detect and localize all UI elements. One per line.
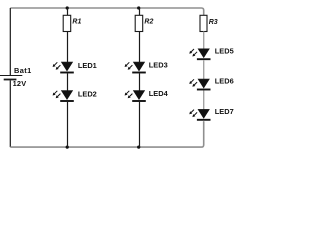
resistor R1 bbox=[63, 15, 70, 31]
resistor R2 bbox=[135, 15, 143, 31]
LED LED7 bbox=[189, 109, 210, 119]
svg-text:LED7: LED7 bbox=[215, 107, 234, 116]
wire branch3 R3 to LED5 bbox=[203, 32, 205, 49]
wire branch2 top stub bbox=[139, 8, 141, 15]
wire branch1 LED2 to bottom bbox=[67, 102, 69, 147]
wire branch3 below LED5 bbox=[203, 60, 205, 79]
svg-text:LED6: LED6 bbox=[215, 77, 234, 86]
svg-text:R3: R3 bbox=[209, 19, 218, 26]
wire branch1 R1 to LED1 bbox=[67, 32, 69, 63]
wire left rail upper bbox=[9, 8, 11, 75]
svg-text:LED2: LED2 bbox=[78, 90, 97, 99]
node junction top x=67.2 bbox=[66, 6, 69, 9]
LED LED6 bbox=[189, 79, 210, 89]
resistor R3 bbox=[200, 15, 207, 31]
wire branch1 LED1 to LED2 bbox=[67, 74, 69, 91]
wire branch1 top stub bbox=[67, 8, 69, 15]
svg-text:LED1: LED1 bbox=[78, 61, 97, 70]
wire branch2 LED3 to LED4 bbox=[139, 74, 141, 91]
wire bottom bus bbox=[10, 121, 203, 147]
LED LED5 bbox=[189, 49, 210, 59]
svg-text:Bat1: Bat1 bbox=[14, 66, 32, 75]
wire branch3 below LED6 bbox=[203, 91, 205, 110]
wire branch2 LED4 to bottom bbox=[139, 102, 141, 147]
svg-text:R2: R2 bbox=[144, 19, 153, 26]
svg-text:LED5: LED5 bbox=[215, 46, 234, 55]
svg-text:LED4: LED4 bbox=[149, 89, 169, 98]
wire top bus bbox=[10, 8, 203, 15]
LED LED2 bbox=[53, 91, 74, 101]
LED LED3 bbox=[125, 62, 146, 72]
node junction bottom x=138.7 bbox=[137, 146, 140, 149]
node junction top x=138.7 bbox=[137, 6, 140, 9]
svg-text:LED3: LED3 bbox=[149, 60, 168, 69]
wire branch2 R2 to LED3 bbox=[139, 32, 141, 63]
wire left rail lower bbox=[9, 80, 11, 147]
svg-text:12V: 12V bbox=[13, 79, 27, 88]
battery Bat1 bbox=[0, 76, 22, 80]
LED LED1 bbox=[53, 62, 74, 72]
LED LED4 bbox=[125, 91, 146, 101]
node junction bottom x=67.2 bbox=[66, 146, 69, 149]
svg-text:R1: R1 bbox=[72, 19, 81, 26]
wire branch3 below LED7 bbox=[203, 120, 205, 123]
